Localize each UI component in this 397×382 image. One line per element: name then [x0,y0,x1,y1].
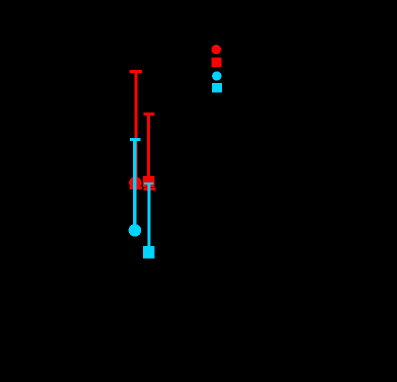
red errorbar series 2 : bottom cap [144,187,156,190]
red errorbar series 2 : square marker [143,176,155,187]
red errorbar series 1 : vertical line [135,71,138,190]
legend marker: red circle [211,45,221,55]
cyan errorbar series 2 : vertical line [147,183,150,247]
red errorbar series 1 (circle marker) : top cap [130,70,142,73]
legend marker: red square [212,58,222,67]
red errorbar series 2 (square marker) : top cap [144,112,155,115]
red errorbar series 1 : circle marker [129,177,141,189]
legend marker: cyan square [212,83,222,92]
red errorbar series 1 : bottom cap [130,187,142,190]
red errorbar series 2 : vertical line [147,114,150,191]
cyan errorbar series 1 (circle marker) : top cap [130,138,140,141]
cyan errorbar series 1 : circle marker [129,224,142,237]
cyan errorbar series 2 (square marker) : top cap [144,182,154,184]
cyan errorbar series 2 : square marker [143,246,155,259]
cyan errorbar series 1 : vertical line [133,139,136,230]
legend marker: cyan circle [212,71,221,80]
